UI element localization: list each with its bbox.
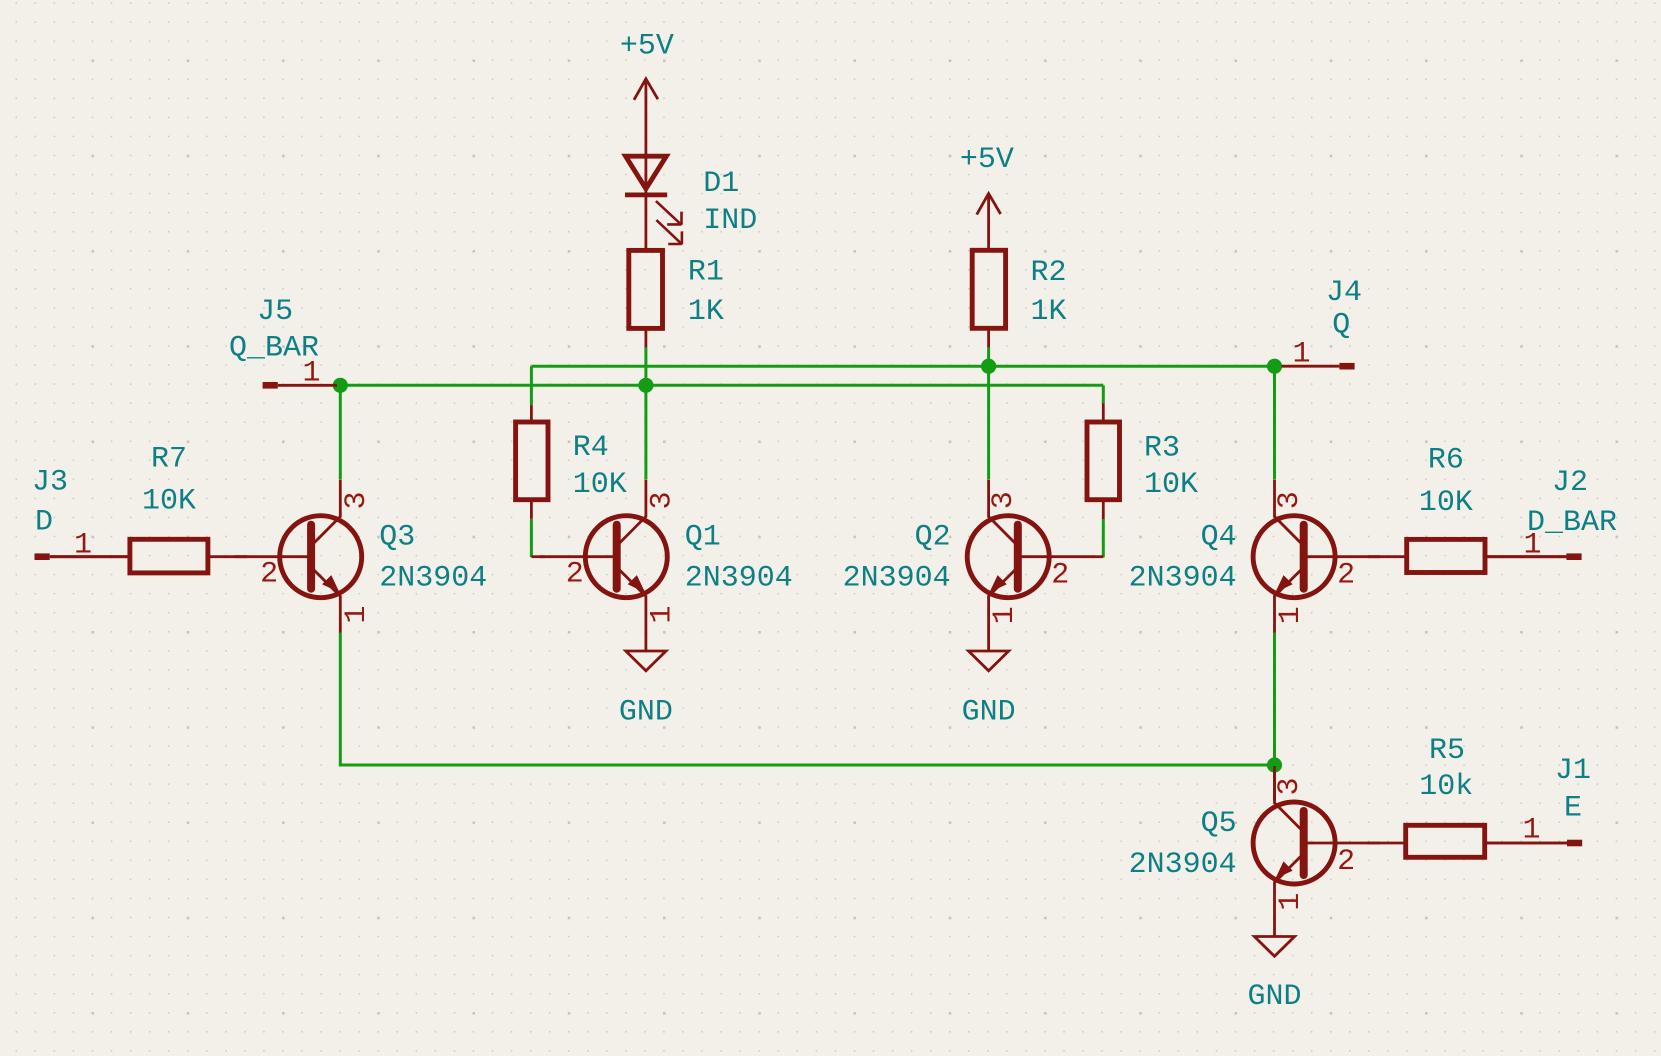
connector J2 D_BAR [1485, 466, 1617, 563]
svg-text:Q1: Q1 [685, 521, 721, 555]
junction C (R2/Q2 collector/Q) [981, 359, 996, 374]
resistor R6 10K [1368, 444, 1566, 573]
ground GND (Q5 emitter) [1247, 918, 1301, 1014]
wire R4 elbow to Q1 base (pin overlap) [531, 555, 545, 558]
svg-text:10k: 10k [1419, 770, 1473, 804]
svg-text:10K: 10K [1144, 468, 1198, 502]
wire R4 bottom elbow to Q1 base [530, 519, 533, 557]
svg-text:IND: IND [703, 204, 757, 238]
svg-text:R3: R3 [1144, 432, 1180, 466]
transistor Q3 2N3904 [235, 480, 488, 633]
svg-text:D: D [35, 506, 53, 540]
svg-text:10K: 10K [142, 485, 196, 519]
svg-text:Q4: Q4 [1201, 521, 1237, 555]
svg-text:1: 1 [1522, 814, 1540, 848]
wire Q3 collector to junction [339, 385, 342, 479]
svg-text:1: 1 [1292, 338, 1310, 372]
wire Q4 emitter to bottom junction [1273, 633, 1276, 765]
resistor R1 1K [629, 250, 724, 347]
svg-text:Q_BAR: Q_BAR [229, 331, 319, 365]
resistor R2 1K [972, 250, 1066, 347]
wire R2 / Q2 collector column [987, 347, 990, 479]
svg-text:Q2: Q2 [915, 521, 951, 555]
svg-text:+5V: +5V [620, 30, 674, 64]
svg-text:1: 1 [645, 605, 679, 623]
svg-text:2: 2 [1337, 559, 1355, 593]
svg-text:+5V: +5V [960, 143, 1014, 177]
svg-text:3: 3 [1273, 777, 1307, 795]
svg-text:1K: 1K [1031, 295, 1067, 329]
svg-text:J4: J4 [1326, 276, 1362, 310]
svg-text:1: 1 [1274, 606, 1308, 624]
svg-text:1K: 1K [688, 295, 724, 329]
junction B (R1-Q1/Q_BAR) [638, 378, 653, 393]
svg-text:10K: 10K [1419, 486, 1473, 520]
svg-text:J5: J5 [257, 295, 293, 329]
power +5V #PWR02 [960, 143, 1014, 250]
wire Q bus (upper horizontal) [531, 365, 1274, 368]
connector J4 Q [1282, 276, 1363, 372]
svg-text:1: 1 [74, 529, 92, 563]
wire Q3 emitter to bottom bus [340, 633, 1274, 765]
svg-text:3: 3 [1273, 491, 1307, 509]
svg-text:1: 1 [340, 605, 374, 623]
wire R3 top from Q_BAR bus [1102, 385, 1105, 403]
transistor Q1 2N3904 [540, 480, 793, 633]
svg-text:2N3904: 2N3904 [1129, 848, 1237, 882]
svg-text:1: 1 [1274, 893, 1308, 911]
svg-text:GND: GND [962, 695, 1016, 729]
svg-text:2: 2 [1051, 559, 1069, 593]
svg-text:2: 2 [566, 558, 584, 592]
svg-text:D1: D1 [703, 167, 739, 201]
connector J5 Q_BAR [229, 295, 337, 390]
svg-text:10K: 10K [573, 468, 627, 502]
wire Q4 collector from Q bus [1273, 366, 1276, 479]
wire Q2 base to R3 elbow [1093, 555, 1103, 558]
svg-text:3: 3 [340, 491, 374, 509]
power +5V #PWR01 [620, 30, 674, 157]
svg-text:R2: R2 [1031, 256, 1067, 290]
svg-text:Q3: Q3 [379, 521, 415, 555]
svg-text:1: 1 [988, 606, 1022, 624]
svg-text:2N3904: 2N3904 [1129, 562, 1237, 596]
svg-text:2: 2 [260, 558, 278, 592]
connector J3 D [32, 466, 130, 563]
wire bottom junction to Q5 collector [1273, 765, 1276, 790]
resistor R7 10K [50, 443, 247, 573]
svg-text:3: 3 [645, 491, 679, 509]
junction D (Q4 collector/J4) [1267, 359, 1282, 374]
svg-text:R1: R1 [688, 256, 724, 290]
wire R4 top from Q bus [530, 366, 533, 405]
ground GND (Q1 emitter) [619, 633, 673, 730]
svg-text:GND: GND [1247, 980, 1301, 1014]
resistor R4 10K [516, 405, 627, 519]
svg-text:Q5: Q5 [1201, 807, 1237, 841]
junction E (Q4-Q5 emitter/collector) [1267, 757, 1282, 772]
svg-text:2N3904: 2N3904 [379, 562, 487, 596]
svg-text:R5: R5 [1429, 734, 1465, 768]
svg-text:J1: J1 [1555, 754, 1591, 788]
svg-text:2: 2 [1337, 845, 1355, 879]
transistor Q2 2N3904 [843, 480, 1095, 633]
LED D1 IND [625, 156, 757, 250]
connector J1 E [1485, 754, 1591, 848]
svg-text:3: 3 [987, 491, 1021, 509]
resistor R3 10K [1087, 403, 1198, 519]
wire Q_BAR bus (lower horizontal) [340, 384, 1103, 387]
wire R3 bottom elbow to Q2 base [1102, 519, 1105, 558]
ground GND (Q2 emitter) [962, 633, 1016, 730]
svg-text:E: E [1564, 792, 1582, 826]
transistor Q5 2N3904 [1129, 766, 1381, 919]
svg-text:R6: R6 [1428, 444, 1464, 478]
svg-text:D_BAR: D_BAR [1527, 506, 1617, 540]
wire Q5 collector pin [1273, 790, 1276, 800]
svg-text:J2: J2 [1552, 466, 1588, 500]
transistor Q4 2N3904 [1129, 480, 1381, 633]
svg-text:GND: GND [619, 695, 673, 729]
resistor R5 10k [1367, 734, 1567, 857]
svg-text:2N3904: 2N3904 [843, 562, 951, 596]
svg-text:J3: J3 [32, 466, 68, 500]
svg-text:Q: Q [1332, 309, 1350, 343]
svg-text:R7: R7 [151, 443, 187, 477]
junction A (J5/Q3/Q_BAR) [333, 378, 348, 393]
svg-text:R4: R4 [573, 431, 609, 465]
svg-text:2N3904: 2N3904 [685, 562, 793, 596]
wire R1 / Q1 collector column [644, 347, 647, 479]
